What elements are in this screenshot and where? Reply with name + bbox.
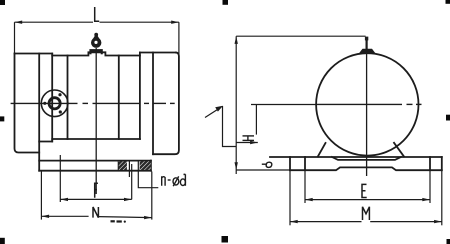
extension line right for M — [441, 170, 443, 225]
label F — [95, 183, 98, 198]
left end cover top edge — [15, 53, 53, 55]
arrowhead down at base bottom — [235, 162, 238, 170]
foot section hatching right of bolt hole — [140, 161, 151, 170]
arrowhead N right — [144, 216, 152, 219]
bearing flange circle — [41, 90, 68, 117]
arrowhead N left — [41, 215, 49, 218]
label E — [362, 184, 367, 197]
corner crop mark bottom-left — [0, 238, 5, 244]
bolt hole line left — [304, 157, 306, 170]
H arrow line — [236, 142, 258, 144]
extension line left for F — [59, 155, 61, 202]
extension line left for E — [304, 170, 306, 203]
H dimension line — [255, 105, 257, 135]
extension line left for N — [40, 172, 42, 220]
extension line left for M — [289, 170, 291, 225]
left side cover edge — [67, 56, 69, 140]
vertical centreline right view — [366, 40, 368, 177]
arrowhead L left — [15, 21, 23, 24]
left gusset leg — [318, 143, 326, 157]
centreline extension to the left — [251, 104, 316, 106]
foot slab bottom edge — [39, 170, 151, 172]
dimension L line — [15, 22, 179, 56]
height dimension structure left of right view — [205, 36, 366, 174]
corner crop mark top-right — [446, 0, 450, 4]
extension line right for E — [429, 170, 431, 203]
section break line — [117, 161, 119, 171]
outside arrow tail diagonal — [205, 107, 221, 117]
top extension line to eyebolt tip — [236, 35, 365, 37]
vertical centreline left view — [95, 48, 97, 194]
dimension E line — [305, 170, 430, 203]
extension line right for F — [131, 164, 133, 199]
phi slash of label — [173, 176, 179, 186]
arrowhead right on H arrow line — [250, 141, 258, 144]
dash of n-d label — [168, 179, 171, 181]
label N — [93, 207, 98, 218]
arrowhead M right — [434, 220, 442, 223]
label H rotated — [243, 136, 255, 141]
dimension M line — [290, 170, 442, 225]
body bottom edge — [39, 139, 140, 142]
extension line left for L — [14, 22, 16, 53]
extension line right for L — [178, 22, 180, 56]
horizontal centreline right view (dash-dot) — [316, 103, 422, 105]
left body boundary line — [51, 54, 53, 142]
corner crop mark bottom-right — [447, 239, 450, 244]
right cover divider line — [152, 53, 154, 155]
edge tick left-middle — [0, 116, 4, 121]
eyebolt lug end-on — [359, 49, 375, 53]
eyebolt bracket — [89, 49, 102, 52]
base plate top edge — [270, 156, 442, 158]
left end cover outline — [15, 54, 40, 153]
label 5 rotated — [262, 162, 272, 167]
flange bolt hole upper-right — [58, 93, 61, 96]
phi circle of label — [173, 178, 179, 185]
right body boundary line — [139, 53, 141, 140]
extension line right for N — [151, 172, 153, 220]
corner crop mark top-left — [0, 0, 5, 5]
overall height dimension line — [235, 36, 237, 174]
right end cover top edge — [140, 52, 176, 54]
dimension F line — [60, 155, 131, 202]
arrowhead E right — [422, 198, 430, 201]
arrowhead F right — [124, 198, 132, 201]
arrowhead M left — [290, 220, 298, 223]
foot slab right edge — [150, 161, 152, 171]
arrowhead NE outside arrow — [215, 106, 223, 112]
right gusset leg — [394, 143, 404, 157]
flange bolt hole lower-right — [59, 110, 62, 113]
outside arrow bent tail — [223, 106, 237, 147]
d glyph of label — [180, 179, 185, 186]
label M — [363, 207, 370, 220]
right end cover outline — [153, 53, 179, 155]
bolt hole line right — [429, 157, 431, 170]
arrowhead up at eyebolt top level — [235, 36, 238, 44]
eyebolt — [91, 33, 101, 48]
bolt hole edge line right / leader stem — [138, 161, 158, 188]
eyebolt stem tip — [365, 37, 368, 41]
arrowhead E left — [305, 198, 313, 201]
arrowhead F left — [60, 198, 68, 201]
edge tick top-middle — [223, 0, 229, 5]
label L — [95, 7, 100, 21]
label n- d : n glyph — [162, 174, 186, 186]
edge tick bottom-middle — [222, 236, 229, 243]
base bottom extension line — [236, 169, 290, 171]
motor housing circle — [316, 53, 418, 155]
grease plug inner ring — [49, 98, 60, 109]
base plate bottom edge with relief — [290, 167, 442, 170]
base plate left edge — [289, 157, 291, 170]
scan speck dashes under N line — [111, 220, 115, 222]
dimension N line — [41, 172, 151, 220]
horizontal centreline left view (dash-dot) — [11, 102, 175, 104]
right side cover edge — [118, 56, 120, 140]
edge tick right-middle — [446, 115, 450, 121]
left cover divider line — [38, 54, 40, 171]
bolt hole edge line left — [128, 161, 130, 177]
foot section hatching left of bolt hole — [118, 161, 127, 170]
body top edge with eyebolt boss bump — [52, 52, 140, 55]
flange bolt hole left — [43, 102, 46, 105]
base plate right edge — [441, 157, 443, 170]
base plate recess top line — [332, 157, 401, 160]
foot slab top edge — [39, 160, 151, 162]
arrowhead L right — [171, 21, 179, 24]
